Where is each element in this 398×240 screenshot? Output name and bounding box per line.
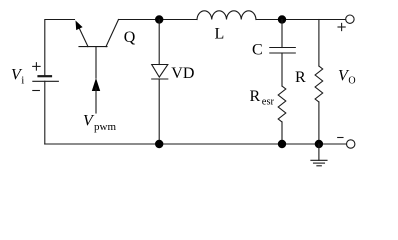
- wire diode branch upper: [158, 20, 160, 65]
- svg-text:pwm: pwm: [94, 121, 116, 133]
- label Vpwm: [83, 113, 116, 133]
- transistor Q: [76, 20, 119, 79]
- wire capacitor branch upper: [281, 20, 283, 48]
- label Resr: [250, 88, 275, 108]
- svg-text:Q: Q: [124, 29, 136, 46]
- node ground junction: [315, 140, 323, 148]
- wire left vertical below source to bottom rail: [44, 81, 46, 144]
- inductor L: [197, 11, 256, 20]
- svg-text:i: i: [21, 75, 24, 87]
- wire bottom rail: [45, 143, 347, 145]
- label VO: [338, 68, 356, 87]
- svg-text:R: R: [250, 88, 261, 105]
- node output (junction of L, C): [278, 15, 286, 23]
- capacitor C: [270, 48, 296, 54]
- wire load branch upper: [318, 20, 320, 67]
- label C: [252, 41, 263, 58]
- node switching (junction of Q, VD, L): [155, 15, 163, 23]
- wire load branch lower: [318, 102, 320, 144]
- label L: [215, 26, 225, 43]
- wire top-left horizontal from source to transistor emitter: [45, 20, 75, 77]
- wire top rail from collector to inductor: [119, 19, 198, 21]
- ground: [311, 144, 327, 166]
- node diode bottom junction: [155, 140, 163, 148]
- wire between capacitor and Resr: [281, 53, 283, 86]
- pwm drive source Vpwm (arrow): [92, 78, 100, 113]
- svg-text:R: R: [295, 69, 306, 86]
- svg-text:esr: esr: [262, 97, 275, 108]
- wire Resr to bottom rail: [281, 122, 283, 144]
- label Q: [124, 29, 136, 46]
- label Vi: [11, 67, 24, 87]
- terminal negative output: [338, 138, 355, 149]
- diode VD: [152, 65, 168, 80]
- svg-text:L: L: [215, 26, 225, 43]
- terminal positive output: [338, 15, 354, 31]
- voltage source Vi: [33, 63, 59, 91]
- label R: [295, 69, 306, 86]
- wire diode branch lower: [158, 79, 160, 144]
- node Resr bottom junction: [278, 140, 286, 148]
- label VD: [171, 65, 194, 82]
- svg-text:C: C: [252, 41, 263, 58]
- svg-text:VD: VD: [171, 65, 194, 82]
- wire top rail from inductor to output terminal: [256, 19, 346, 21]
- resistor R: [315, 66, 323, 102]
- resistor Resr: [278, 86, 286, 122]
- svg-text:O: O: [348, 76, 355, 87]
